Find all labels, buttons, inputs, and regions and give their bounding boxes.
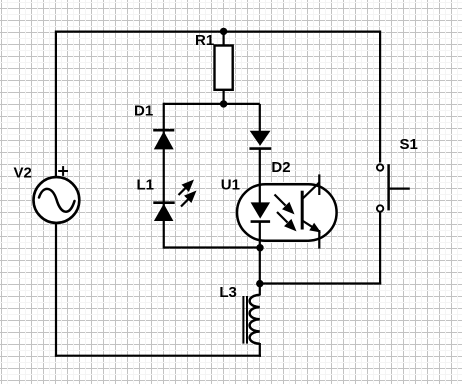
wire top rail [56,31,380,33]
svg-text:R1: R1 [195,32,214,49]
diode D2 [249,131,271,149]
inductor L3 [250,284,260,357]
wire bridge top rail [164,103,260,105]
wire opto to L3 node [259,247,261,285]
diode D1 [153,130,174,149]
wire bottom rail [55,355,261,357]
inductor L3 core lines [243,296,247,344]
node junction dot R1 bottom [220,100,227,107]
wire switch to bottom [379,212,381,285]
wire R1 top lead [223,32,225,47]
phototransistor emitter with arrow [302,221,321,249]
wire bridge left branch [163,103,165,249]
LED L1 [153,203,174,221]
svg-text:S1: S1 [400,136,418,153]
wire V2 bottom [55,223,57,357]
resistor R1 [215,46,233,90]
svg-text:D2: D2 [271,159,290,176]
wire left drop to V2 [55,31,57,178]
opto LED inside U1 [251,184,271,248]
optocoupler U1 body [237,184,337,241]
voltage source V2 [34,177,80,223]
svg-text:D1: D1 [134,103,153,120]
LED L1 emission arrows [179,182,195,207]
phototransistor collector [302,174,319,199]
node junction dot L3 top [256,280,263,287]
wire switch branch horizontal [260,282,381,284]
node junction dot top [220,28,227,35]
wire bridge right branch upper [259,104,261,132]
svg-text:V2: V2 [14,165,32,182]
svg-text:L3: L3 [219,284,237,301]
svg-text:U1: U1 [221,176,240,193]
switch S1 [377,164,410,212]
node junction dot bridge bottom [256,244,263,251]
opto coupling arrows [275,195,295,230]
svg-text:L1: L1 [137,177,155,194]
wire bridge bottom rail [164,246,260,248]
V2 plus polarity mark [58,166,68,176]
wire R1 bottom lead [223,90,225,104]
wire D2 to opto LED [259,149,261,203]
phototransistor base bar [301,191,304,230]
wire right rail [379,31,381,163]
